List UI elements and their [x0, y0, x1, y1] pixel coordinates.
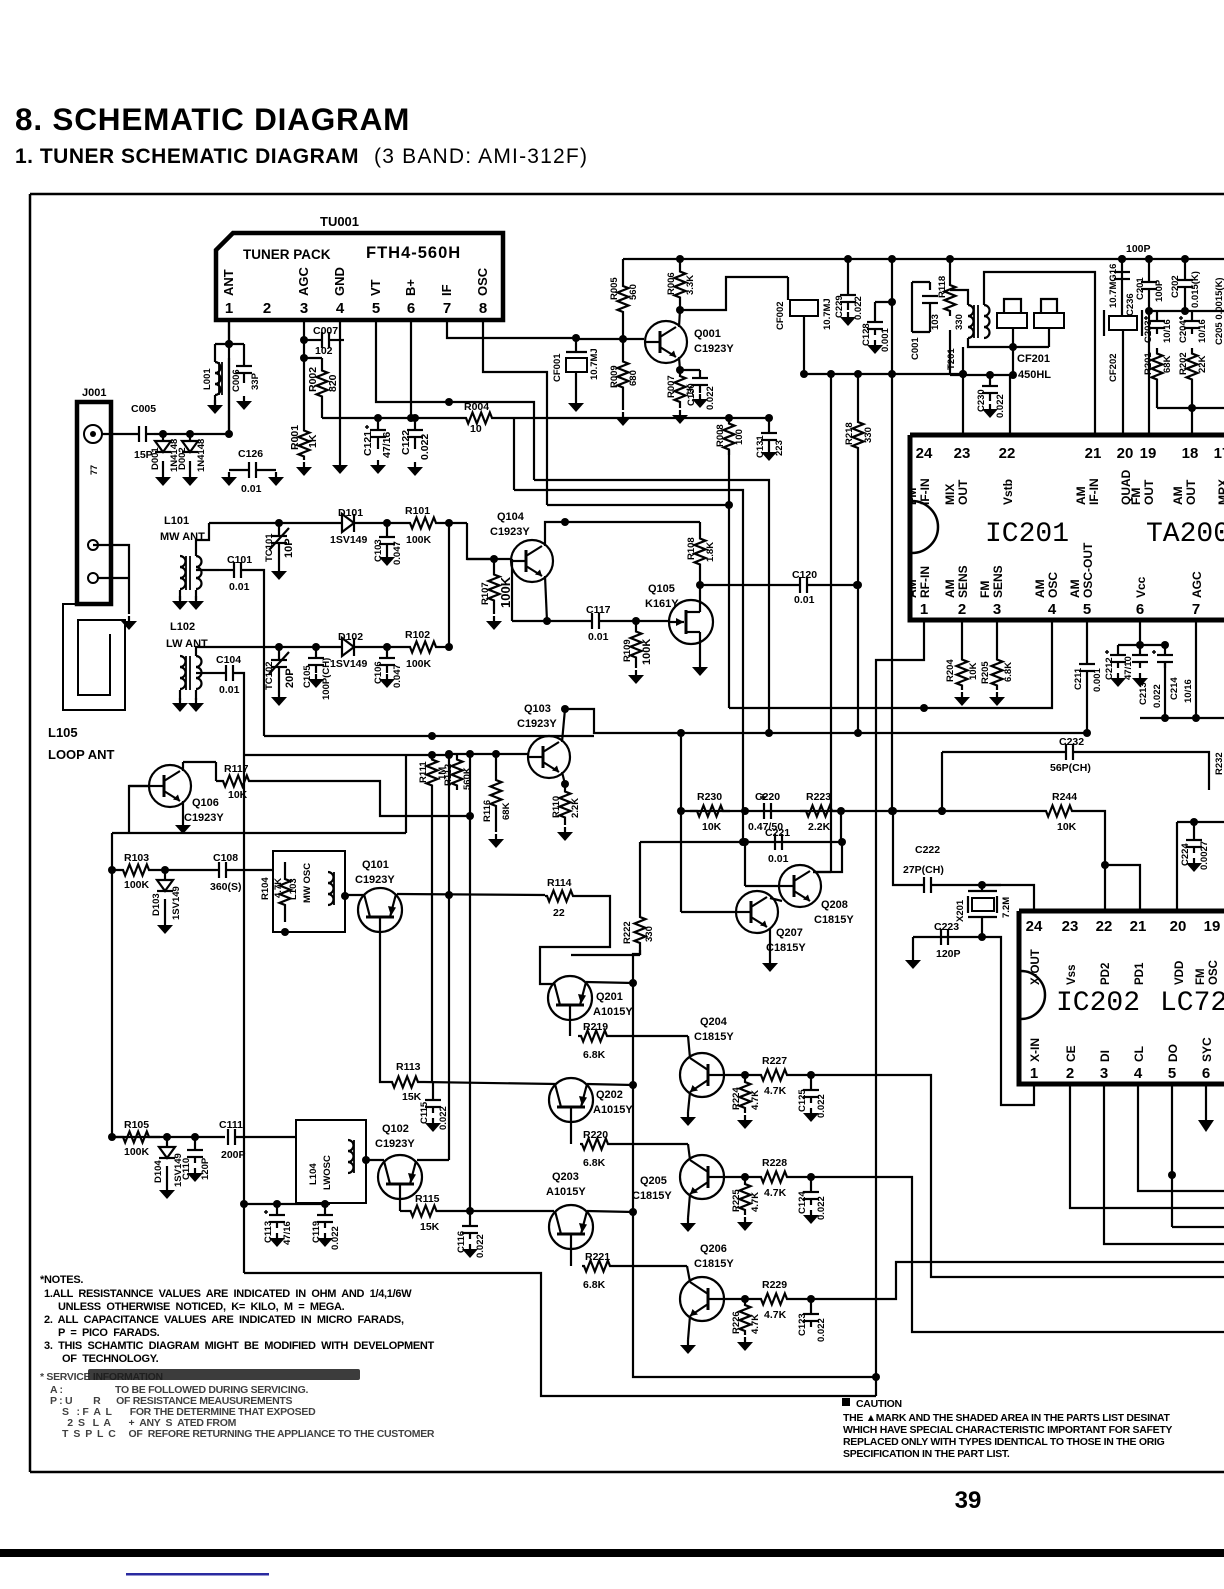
svg-text:R006: R006 — [666, 272, 677, 295]
svg-text:R228: R228 — [762, 1157, 787, 1169]
svg-text:AGC: AGC — [1190, 571, 1204, 598]
svg-text:360(S): 360(S) — [210, 881, 242, 893]
wire C101 out — [241, 570, 264, 736]
wire rail259 — [628, 258, 768, 260]
wire T201 bot — [968, 338, 1013, 347]
svg-text:L101: L101 — [164, 515, 189, 527]
svg-text:10.7MG16: 10.7MG16 — [1108, 264, 1119, 308]
wire C232 line — [942, 751, 1066, 753]
wire IC202 CE — [1070, 1084, 1224, 1208]
resistor R009 — [618, 339, 629, 410]
ground J001 — [128, 616, 130, 622]
capacitor C103 — [386, 523, 388, 537]
capacitor C204 — [1184, 320, 1200, 322]
svg-text:6.8K: 6.8K — [583, 1157, 606, 1169]
svg-text:2: 2 — [1066, 1065, 1074, 1082]
ground C126 left — [228, 472, 230, 478]
wire IC201 pin6 — [1139, 621, 1141, 645]
wire rail418 — [321, 399, 323, 418]
svg-text:R202: R202 — [1178, 352, 1189, 375]
capacitor C213 — [1132, 654, 1148, 656]
svg-text:R224: R224 — [731, 1087, 742, 1110]
svg-text:2. ALL CAPACITANCE VALUES: 2. ALL CAPACITANCE VALUES ARE INDICATED … — [44, 1314, 404, 1326]
svg-text:OUT: OUT — [1142, 479, 1156, 505]
svg-text:100K: 100K — [406, 534, 432, 546]
capacitor C230 — [989, 375, 991, 386]
svg-text:C221: C221 — [765, 827, 790, 839]
wire C117 line — [512, 620, 592, 622]
capacitor C111 — [227, 1129, 229, 1145]
wire IC202 DI — [1104, 1084, 1224, 1244]
svg-text:L104: L104 — [308, 1163, 319, 1185]
svg-text:C229: C229 — [834, 295, 845, 318]
svg-text:0.022: 0.022 — [853, 296, 864, 320]
svg-text:CE: CE — [1064, 1045, 1078, 1062]
svg-text:100K: 100K — [498, 576, 513, 608]
svg-text:0.022: 0.022 — [816, 1318, 827, 1342]
svg-text:L105: L105 — [48, 725, 78, 740]
svg-text:TC101: TC101 — [264, 533, 275, 562]
svg-text:1SV149: 1SV149 — [330, 658, 368, 670]
svg-text:Q208: Q208 — [821, 899, 848, 911]
svg-text:C220: C220 — [755, 791, 780, 803]
inductor L101 — [180, 556, 186, 567]
capacitor C113 — [276, 1204, 278, 1215]
ground C125 — [810, 1108, 812, 1114]
svg-text:0.01: 0.01 — [229, 581, 250, 593]
wire C211 down — [1086, 671, 1088, 733]
svg-text:THE ▲MARK AND THE SHADED AREA: THE ▲MARK AND THE SHADED AREA IN THE PAR… — [843, 1412, 1170, 1424]
svg-text:IF-IN: IF-IN — [1087, 478, 1101, 505]
svg-text:Q104: Q104 — [497, 511, 525, 523]
svg-text:VDD: VDD — [1174, 961, 1186, 985]
svg-text:R109: R109 — [622, 639, 633, 662]
svg-text:R103: R103 — [124, 852, 149, 864]
svg-text:100K: 100K — [641, 639, 653, 665]
svg-text:100K: 100K — [406, 658, 432, 670]
svg-text:AGC: AGC — [296, 267, 311, 297]
wire Q001 emitter — [679, 357, 680, 370]
wire tuner pin7 — [447, 320, 576, 338]
capacitor C202 — [1184, 259, 1186, 280]
svg-text:0.022: 0.022 — [438, 1106, 449, 1130]
svg-text:R104: R104 — [260, 877, 271, 900]
wire R229 bus — [811, 1262, 1224, 1299]
svg-text:R008: R008 — [715, 424, 726, 447]
svg-text:R219: R219 — [583, 1021, 608, 1033]
ground R226 — [744, 1337, 746, 1343]
svg-text:0.022: 0.022 — [705, 386, 716, 410]
svg-text:330: 330 — [644, 926, 655, 942]
svg-text:OUT: OUT — [956, 479, 970, 505]
svg-text:R204: R204 — [945, 659, 956, 682]
resistor R005 — [618, 259, 629, 339]
svg-text:0.022: 0.022 — [475, 1234, 486, 1258]
ground R204 — [961, 692, 963, 698]
inductor L102 — [180, 656, 186, 667]
connector J001 — [77, 402, 111, 604]
svg-text:3: 3 — [300, 300, 308, 317]
svg-text:100K: 100K — [124, 879, 150, 891]
wire Q202 collector — [587, 1084, 633, 1085]
svg-text:10/16: 10/16 — [1197, 319, 1208, 343]
wire L101 tap — [196, 569, 219, 571]
wire J001 top — [102, 433, 139, 435]
capacitor C222 — [923, 877, 925, 893]
capacitor C121 — [377, 418, 379, 430]
svg-text:19: 19 — [1140, 445, 1157, 462]
transistor Q104 — [511, 540, 553, 582]
wire Q101 emitter — [380, 932, 386, 1082]
svg-text:D001: D001 — [150, 447, 161, 470]
ground C126 right — [275, 472, 277, 478]
capacitor C105 — [315, 647, 317, 658]
ground C121 — [377, 460, 379, 466]
svg-text:100K: 100K — [124, 1146, 150, 1158]
svg-text:C1923Y: C1923Y — [184, 812, 224, 824]
wire node449 down — [448, 523, 450, 647]
wire Q205 collector — [688, 1144, 690, 1160]
svg-text:820: 820 — [327, 374, 339, 392]
svg-text:C212: C212 — [1104, 657, 1115, 680]
svg-text:27P(CH): 27P(CH) — [903, 864, 944, 876]
ground TC102 — [278, 692, 280, 698]
resistor R225 — [740, 1179, 751, 1215]
ground C106 — [386, 674, 388, 680]
wire PD1 jog — [1105, 865, 1140, 909]
resistor R223 — [800, 806, 838, 817]
wire Q104 base — [467, 558, 511, 560]
resistor R002 — [317, 368, 328, 399]
svg-text:R226: R226 — [731, 1311, 742, 1334]
ground C130 — [699, 394, 701, 400]
svg-text:5: 5 — [372, 300, 380, 317]
capacitor C124 — [810, 1177, 812, 1192]
resistor R229 — [757, 1294, 791, 1305]
wire C232 out — [1073, 752, 1209, 790]
wire rail647 — [196, 647, 342, 656]
svg-text:0.01: 0.01 — [241, 483, 262, 495]
svg-text:15K: 15K — [402, 1091, 422, 1103]
svg-text:22: 22 — [553, 907, 565, 919]
svg-text:OUT: OUT — [1184, 479, 1198, 505]
svg-text:R221: R221 — [585, 1251, 610, 1263]
tank L104 — [296, 1120, 366, 1203]
svg-text:C204: C204 — [1178, 320, 1189, 343]
svg-text:SPECIFICATION IN THE PART LIST: SPECIFICATION IN THE PART LIST. — [843, 1448, 1010, 1460]
svg-text:MIX: MIX — [943, 484, 957, 505]
capacitor C122 — [414, 418, 416, 430]
wire bus y507 — [547, 504, 729, 506]
svg-text:10/16: 10/16 — [1162, 319, 1173, 343]
wire tuner pin1 — [228, 320, 230, 434]
wire rail833 — [112, 832, 406, 834]
resistor R202 — [1187, 348, 1198, 385]
svg-text:Q001: Q001 — [694, 328, 721, 340]
resistor R201 — [1152, 348, 1163, 385]
wire IC201 pin2 — [961, 621, 963, 655]
transistor Q207 — [736, 891, 778, 933]
wire Q001 collector — [679, 310, 680, 327]
wire Q206 emitter — [688, 1316, 690, 1340]
svg-text:R102: R102 — [405, 629, 430, 641]
ground tuner pin4 — [339, 460, 341, 466]
svg-text:SENS: SENS — [991, 565, 1005, 598]
svg-text:0.022: 0.022 — [419, 434, 431, 460]
resistor R226 — [740, 1301, 751, 1335]
transistor Q105 FET — [669, 600, 713, 644]
svg-text:4: 4 — [1134, 1065, 1143, 1082]
capacitor C212 — [1110, 654, 1126, 656]
svg-text:10K: 10K — [702, 821, 722, 833]
svg-text:R111: R111 — [418, 761, 429, 783]
svg-text:C126: C126 — [238, 448, 263, 460]
ground C116 — [469, 1244, 471, 1250]
blue rule — [126, 1573, 269, 1576]
svg-text:Vcc: Vcc — [1134, 576, 1148, 598]
svg-text:C202: C202 — [1170, 275, 1181, 298]
svg-text:6: 6 — [1202, 1065, 1210, 1082]
svg-text:330: 330 — [954, 314, 965, 330]
filter CF202 — [1109, 316, 1137, 330]
svg-text:C1923Y: C1923Y — [490, 526, 530, 538]
tank L103 — [273, 851, 345, 932]
resistor R001 — [299, 427, 310, 460]
wire Q103 emitter — [562, 772, 565, 784]
transistor Q102 — [378, 1155, 422, 1199]
wire Q105 drain — [699, 585, 701, 602]
wire IC202 CL — [1138, 1084, 1224, 1191]
svg-text:0.01: 0.01 — [794, 594, 815, 606]
resistor R102 — [406, 642, 440, 653]
wire R101 out — [440, 522, 467, 524]
ground C105 — [315, 674, 317, 680]
ground D001 — [162, 472, 164, 478]
svg-text:Vstb: Vstb — [1001, 479, 1015, 505]
capacitor C220 — [763, 803, 765, 819]
ground C212 — [1117, 673, 1119, 679]
wire Q201 collector rail — [571, 954, 640, 956]
capacitor C005 — [138, 426, 140, 442]
svg-text:J001: J001 — [82, 387, 106, 399]
svg-text:C223: C223 — [934, 921, 959, 933]
capacitor C201 — [1148, 259, 1150, 282]
svg-text:Q203: Q203 — [552, 1171, 579, 1183]
svg-text:4.7K: 4.7K — [764, 1187, 787, 1199]
svg-text:C1815Y: C1815Y — [814, 914, 854, 926]
resistor R112 — [452, 755, 463, 790]
ground L102a — [179, 698, 181, 704]
svg-text:D101: D101 — [338, 507, 363, 519]
wire C224 line — [1177, 821, 1224, 823]
svg-text:R225: R225 — [731, 1189, 742, 1212]
resistor R221 — [570, 1249, 572, 1266]
svg-text:MW OSC: MW OSC — [302, 863, 313, 903]
svg-text:C117: C117 — [586, 604, 611, 616]
filter CF201 — [997, 313, 1027, 328]
svg-text:4.7K: 4.7K — [764, 1085, 787, 1097]
svg-text:CF002: CF002 — [775, 301, 786, 330]
svg-text:C1815Y: C1815Y — [694, 1258, 734, 1270]
svg-text:47/10: 47/10 — [1123, 656, 1134, 680]
wire rail523 — [209, 522, 342, 524]
wire Q204 base — [724, 1074, 757, 1076]
svg-text:1N4148: 1N4148 — [196, 439, 207, 472]
ground Q105 — [699, 662, 701, 668]
ground Q206 — [687, 1340, 689, 1346]
svg-text:MW ANT: MW ANT — [160, 531, 205, 543]
svg-text:SYC: SYC — [1200, 1037, 1214, 1062]
svg-text:(3 BAND: AMI-312F): (3 BAND: AMI-312F) — [374, 145, 588, 168]
wire D101 R101 — [354, 522, 406, 524]
svg-text:DI: DI — [1098, 1050, 1112, 1062]
svg-text:10K: 10K — [1057, 821, 1077, 833]
svg-text:AM: AM — [1171, 486, 1185, 505]
svg-text:PD1: PD1 — [1134, 962, 1146, 985]
trimmer TC102 — [271, 659, 287, 661]
ground C122 — [414, 462, 416, 468]
filter CF001 — [566, 358, 587, 372]
svg-text:FM: FM — [905, 488, 919, 505]
wire C128 col — [891, 302, 893, 811]
svg-text:6.8K: 6.8K — [583, 1049, 606, 1061]
svg-text:100P: 100P — [1154, 279, 1165, 302]
wire T201 top — [950, 290, 968, 305]
ground L001 — [214, 400, 216, 406]
svg-text:10.7MJ: 10.7MJ — [589, 348, 600, 380]
svg-text:120P: 120P — [200, 1157, 211, 1180]
ground C115 — [432, 1118, 434, 1124]
ground Q207 — [769, 958, 771, 964]
wire bus x831 — [830, 374, 832, 872]
resistor R115 — [405, 1206, 442, 1217]
wire rail259b — [768, 258, 963, 260]
svg-text:R222: R222 — [622, 921, 633, 944]
svg-text:AM: AM — [943, 579, 957, 598]
diode D102 — [342, 638, 354, 656]
svg-text:TA200: TA200 — [1146, 519, 1224, 550]
svg-text:K161Y: K161Y — [645, 598, 679, 610]
diode D101 — [342, 514, 354, 532]
ground C006 — [243, 396, 245, 402]
svg-text:TUNER PACK: TUNER PACK — [243, 247, 331, 262]
transistor Q203 — [549, 1205, 593, 1249]
svg-text:100: 100 — [734, 429, 745, 445]
capacitor C120 — [799, 577, 801, 593]
wire Q102 emitter — [399, 1199, 401, 1211]
resistor R109 — [631, 621, 642, 668]
wire collector bus x633 — [633, 950, 876, 1377]
svg-text:R220: R220 — [583, 1129, 608, 1141]
wire bus y484 — [514, 490, 743, 842]
capacitor C115 — [432, 1082, 434, 1100]
svg-text:223: 223 — [774, 440, 785, 456]
capacitor C232 — [1065, 744, 1067, 760]
svg-text:8: 8 — [479, 300, 487, 317]
svg-text:77: 77 — [89, 465, 99, 475]
wire Q201 emitter — [540, 896, 610, 984]
capacitor C128 — [867, 321, 883, 323]
wire C128 top — [891, 259, 893, 302]
svg-text:T S P L C OF REFORE R: T S P L C OF REFORE RETURNING THE APPLIA… — [62, 1428, 435, 1440]
wire Q104 emitter — [545, 576, 547, 621]
transistor Q206 — [680, 1277, 724, 1321]
wire L103 base — [345, 894, 363, 896]
ground D002 — [189, 472, 191, 478]
transformer T201 — [968, 305, 974, 316]
svg-text:7: 7 — [443, 300, 451, 317]
svg-text:OSC: OSC — [1208, 960, 1220, 985]
resistor R004 — [461, 413, 497, 424]
capacitor C130 — [692, 377, 708, 379]
svg-text:C1923Y: C1923Y — [694, 343, 734, 355]
wire X201 bottom loop — [982, 937, 1034, 1105]
wire Q206 base — [724, 1298, 757, 1300]
capacitor C211 — [1079, 663, 1095, 665]
capacitor C116 — [469, 1211, 471, 1226]
wire IC202 SYC — [1205, 1084, 1207, 1120]
svg-text:68K: 68K — [1162, 355, 1173, 373]
svg-text:LC72: LC72 — [1160, 988, 1224, 1019]
svg-text:10: 10 — [470, 423, 482, 435]
wire Q207 base — [681, 911, 736, 913]
wire L001 C006 node — [215, 343, 244, 345]
svg-text:1. TUNER SCHEMATIC DIAGRAM: 1. TUNER SCHEMATIC DIAGRAM — [15, 145, 359, 168]
svg-text:OSC-OUT: OSC-OUT — [1081, 542, 1095, 598]
wire Q203 emitter — [470, 1210, 554, 1212]
svg-text:R107: R107 — [480, 582, 491, 605]
svg-text:21: 21 — [1085, 445, 1102, 462]
svg-text:R232: R232 — [1214, 752, 1224, 775]
svg-text:39: 39 — [955, 1487, 982, 1514]
capacitor C006 — [243, 356, 245, 366]
svg-text:15K: 15K — [420, 1221, 440, 1233]
svg-text:560K: 560K — [462, 767, 473, 790]
resistor R111 — [427, 755, 438, 790]
svg-text:C006: C006 — [231, 369, 242, 392]
svg-text:4.7K: 4.7K — [750, 1192, 761, 1212]
svg-text:IC201: IC201 — [985, 519, 1069, 550]
svg-text:R229: R229 — [762, 1279, 787, 1291]
svg-text:3: 3 — [993, 601, 1001, 618]
wire Q208 collector — [813, 842, 842, 872]
wire R228 bus — [811, 1177, 1224, 1332]
svg-text:R108: R108 — [686, 537, 697, 560]
svg-text:TC102: TC102 — [264, 661, 275, 690]
svg-text:R227: R227 — [762, 1055, 787, 1067]
svg-text:20: 20 — [1170, 918, 1187, 935]
capacitor C123 — [810, 1299, 812, 1314]
svg-text:C104: C104 — [216, 654, 241, 666]
resistor R219 — [569, 1020, 571, 1036]
svg-text:R105: R105 — [124, 1119, 149, 1131]
ground R001 — [303, 462, 305, 468]
svg-text:C115: C115 — [419, 1101, 430, 1124]
svg-text:680: 680 — [628, 370, 639, 386]
capacitor C007 — [307, 339, 322, 341]
ground C110 — [194, 1168, 196, 1174]
svg-text:330: 330 — [863, 427, 874, 443]
svg-text:68K: 68K — [501, 802, 512, 820]
capacitor C236 — [1114, 271, 1130, 273]
svg-text:*NOTES.: *NOTES. — [40, 1274, 83, 1286]
svg-text:CAUTION: CAUTION — [856, 1398, 902, 1410]
svg-text:B+: B+ — [403, 279, 418, 296]
wire Q207 emitter — [769, 928, 771, 958]
ground C124 — [810, 1210, 812, 1216]
service info text — [40, 1371, 163, 1383]
svg-text:0.022: 0.022 — [995, 394, 1006, 418]
